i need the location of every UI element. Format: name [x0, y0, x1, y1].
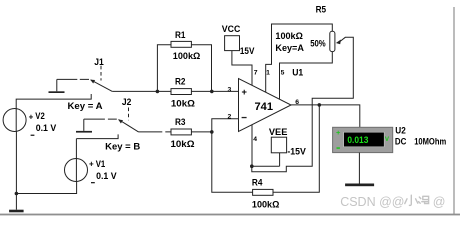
svg-text:1: 1: [266, 69, 270, 76]
wire R1 branch: [157, 45, 211, 92]
R5 wiper arrow: [336, 40, 341, 45]
svg-text:R3: R3: [175, 117, 186, 127]
svg-text:J2: J2: [122, 97, 131, 107]
svg-text:3: 3: [228, 86, 232, 93]
svg-text:0.1 V: 0.1 V: [36, 123, 57, 133]
node dot right: [210, 90, 214, 94]
svg-text:V2: V2: [35, 111, 45, 121]
svg-text:VEE: VEE: [269, 127, 288, 137]
svg-text:7: 7: [254, 69, 258, 76]
J2 key dashed line: [128, 108, 130, 121]
node dot inverting: [210, 130, 214, 134]
source V1: [65, 159, 88, 182]
resistor R4: [253, 189, 273, 195]
bottom separator line: [0, 214, 460, 216]
svg-text:15V: 15V: [240, 46, 255, 56]
svg-text:+: +: [336, 128, 341, 137]
svg-text:R4: R4: [252, 178, 263, 188]
svg-text:DC: DC: [395, 136, 407, 146]
svg-text:100kΩ: 100kΩ: [252, 200, 280, 210]
J1 key dashed line: [100, 66, 102, 81]
svg-text:VCC: VCC: [222, 24, 241, 34]
resistor R3: [171, 129, 191, 135]
wire J1 to noninverting row: [112, 90, 238, 92]
svg-text:R5: R5: [316, 5, 327, 15]
wire pin4 / VEE: [252, 125, 280, 166]
node dot left: [156, 90, 160, 94]
svg-text:100kΩ: 100kΩ: [275, 31, 303, 41]
svg-text:Key = A: Key = A: [68, 101, 103, 111]
ground at J2: [76, 119, 92, 132]
switch J1: [57, 79, 113, 91]
svg-text:5: 5: [281, 69, 285, 76]
R5 wire bottom to pin5: [280, 52, 333, 99]
svg-text:741: 741: [255, 101, 274, 113]
svg-text:+: +: [89, 159, 94, 168]
svg-text:U2: U2: [395, 125, 406, 135]
resistor R2: [171, 89, 191, 95]
svg-text:0.013: 0.013: [347, 135, 368, 145]
svg-text:Key=A: Key=A: [275, 43, 304, 53]
svg-text:10MOhm: 10MOhm: [414, 136, 446, 146]
meter ground: [345, 153, 374, 187]
svg-text:100kΩ: 100kΩ: [173, 51, 201, 61]
switch J2: [84, 119, 139, 132]
ground main: [9, 194, 24, 213]
wiper wire to VEE node: [252, 37, 353, 171]
svg-text:+: +: [242, 87, 248, 97]
R5 wire top to pin1: [266, 24, 333, 92]
wire VCC to pin 7: [232, 51, 252, 86]
wire J2 to inverting row: [139, 131, 212, 133]
svg-text:R1: R1: [175, 30, 186, 40]
svg-text:U1: U1: [292, 68, 303, 78]
wire V2 top to J1 throw: [16, 94, 91, 109]
op-amp U1: [239, 79, 292, 132]
sheet border right: [453, 7, 455, 214]
VEE supply: [271, 137, 286, 153]
svg-text:4: 4: [253, 136, 257, 143]
wire R4 branch: [212, 105, 319, 192]
svg-text:@: @: [433, 195, 446, 209]
svg-text:10kΩ: 10kΩ: [171, 139, 196, 149]
svg-text:V1: V1: [96, 159, 106, 169]
svg-text:J1: J1: [94, 57, 104, 67]
VCC supply: [225, 36, 240, 51]
svg-text:10kΩ: 10kΩ: [171, 99, 196, 109]
svg-text:+: +: [29, 112, 34, 121]
wire V1 top to J2 throw: [76, 134, 118, 158]
voltmeter U2: [333, 127, 393, 152]
svg-text:0.1 V: 0.1 V: [96, 171, 117, 181]
svg-text:R2: R2: [175, 77, 186, 87]
svg-text:CSDN @@: CSDN @@: [340, 195, 404, 209]
output wire pin6 to meter: [291, 105, 360, 127]
svg-text:Key = B: Key = B: [105, 141, 140, 151]
svg-text:50%: 50%: [310, 39, 326, 49]
resistor R1: [171, 41, 191, 47]
wire jog to pin 2: [212, 119, 239, 132]
svg-text:2: 2: [228, 113, 232, 120]
source V2: [3, 109, 26, 132]
ground rail from V2 bottom: [16, 131, 76, 193]
svg-text:-15V: -15V: [287, 147, 306, 157]
ground at J1: [49, 79, 65, 93]
